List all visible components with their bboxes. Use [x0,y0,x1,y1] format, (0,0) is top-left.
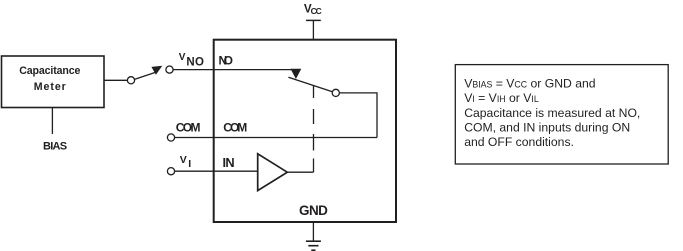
svg-text:GND: GND [299,203,328,218]
switch S1 pole circle [127,77,134,84]
wire buffer output [287,171,313,173]
svg-text:BIAS: BIAS [43,140,67,152]
ground symbol [306,241,321,250]
svg-text:Capacitance is measured at NO,: Capacitance is measured at NO, [464,106,640,120]
wire throw to COM [339,93,377,138]
svg-text:V: V [180,154,187,166]
svg-text:VBIAS = VCC or GND and: VBIAS = VCC or GND and [464,77,595,91]
wire VCC to box [312,20,314,39]
wire COM [175,137,377,139]
svg-text:I: I [188,158,191,170]
svg-text:CC: CC [311,6,322,16]
node VI terminal circle [167,168,174,175]
dashed control line [313,86,315,151]
wire box to ground [312,222,314,241]
wire control line lower solid segment [313,159,315,173]
node COM terminal circle [167,134,174,141]
svg-text:and OFF conditions.: and OFF conditions. [464,135,574,149]
svg-text:Meter: Meter [34,81,66,93]
power VCC T-bar symbol [306,19,321,21]
capacitance meter box [2,56,105,108]
svg-text:V: V [179,52,186,63]
analog switch triangle (pole contact) [291,69,302,79]
svg-text:COM, and IN inputs during ON: COM, and IN inputs during ON [464,120,630,134]
svg-text:COM: COM [223,120,247,134]
wire VI to buffer [175,170,258,172]
note box [455,65,668,164]
svg-text:Capacitance: Capacitance [19,65,80,77]
svg-text:NO: NO [219,53,234,67]
analog switch throw circle [332,89,339,96]
label Capacitance Meter [19,65,80,93]
DUT box U1 [214,40,396,222]
node VNO terminal circle [166,66,173,73]
svg-text:IN: IN [223,155,235,170]
switch S1 blade [135,73,155,80]
svg-text:VI = VIH or VIL: VI = VIH or VIL [464,91,539,105]
wire meter to switch pole [104,79,127,81]
svg-text:NO: NO [186,56,204,68]
switch S1 arrowhead [151,66,162,75]
label VNO [179,52,204,69]
wire BIAS stem [51,108,53,134]
analog switch blade inside DUT [288,77,332,92]
wire VNO to switch triangle [173,69,296,71]
svg-text:COM: COM [176,120,201,134]
power VCC label [304,2,322,16]
label VI [180,154,191,170]
note text [464,77,640,149]
buffer U2 triangle [258,154,288,191]
